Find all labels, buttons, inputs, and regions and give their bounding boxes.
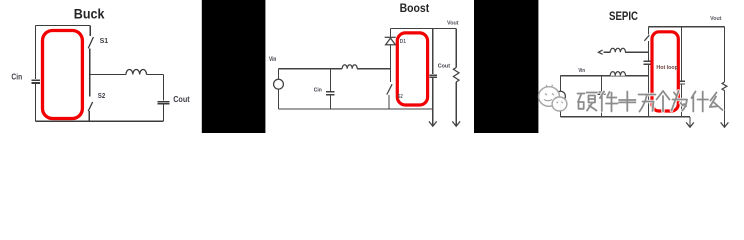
input arrow (to Vin rail) — [598, 50, 602, 54]
switch S1 lever — [88, 37, 93, 48]
wire inductor to output node — [147, 74, 164, 76]
inductor L buck (3 humps) — [126, 70, 147, 75]
wire Cout ground drop — [432, 109, 434, 126]
wire L1 to switch node — [625, 51, 649, 53]
wire bottom (return bus) — [36, 120, 164, 122]
svg-text:S2: S2 — [98, 91, 105, 100]
source Vin circle — [274, 79, 284, 89]
switch S1 top stub — [89, 25, 91, 36]
wire diode cathode stub — [390, 29, 392, 38]
wire S2 bottom stub — [88, 111, 90, 121]
wire switch node to inductor — [90, 74, 126, 76]
capacitor Cdc plates (coupling) — [643, 60, 650, 62]
capacitor Cin plates — [32, 79, 41, 81]
ground arrow (Cout branch) — [429, 121, 437, 126]
diode D1 cathode bar — [385, 36, 396, 38]
inductor L1 (3 humps) — [610, 48, 625, 52]
wire Cout branch lower (sepic) — [681, 84, 683, 116]
wire switch-node vertical — [89, 48, 91, 96]
wire Cin branch lower (sepic) — [601, 95, 603, 117]
wire Cout branch lower — [163, 105, 165, 122]
svg-text:Vin: Vin — [269, 56, 276, 63]
switch S2 lever — [88, 102, 92, 111]
wire bottom bus (sepic) — [561, 116, 691, 118]
watermark text halo — [578, 91, 723, 112]
capacitor Cout plates — [157, 101, 169, 103]
wire load branch lower — [455, 82, 457, 126]
inductor L boost (3 humps) — [342, 65, 357, 69]
inductor L2 (3 humps) — [610, 72, 625, 76]
svg-text:S2: S2 — [398, 94, 403, 100]
watermark text strokes — [578, 91, 723, 112]
wire Cout branch upper — [163, 75, 165, 101]
wire Vin source upper stub — [560, 76, 562, 92]
wire coupling cap to bottom — [648, 65, 650, 117]
wire left (Cin branch upper) — [35, 25, 37, 79]
wire Cin branch upper — [330, 69, 332, 91]
svg-text:Vin: Vin — [578, 68, 585, 74]
svg-text:Cin: Cin — [11, 72, 22, 81]
wire load branch lower (sepic) — [724, 91, 726, 127]
svg-text:Cout: Cout — [438, 63, 450, 69]
svg-text:Cin: Cin — [314, 88, 323, 94]
wire Cin branch lower — [330, 96, 332, 109]
wire bottom bus — [279, 108, 433, 110]
wire S2 bottom stub (boost) — [388, 95, 390, 109]
capacitor Cin plates (sepic) — [598, 91, 606, 93]
wire left (Cin branch lower) — [35, 84, 37, 122]
capacitor Cout plates (sepic) — [678, 80, 685, 82]
svg-text:SEPIC: SEPIC — [609, 10, 638, 23]
watermark logo bubbles — [539, 87, 567, 111]
wire top (input bus) — [36, 24, 91, 26]
ground arrow (load branch) — [452, 121, 460, 126]
svg-text:D1: D1 — [400, 39, 406, 45]
wire output top bus — [391, 28, 457, 30]
wire load branch upper (sepic) — [724, 27, 726, 82]
ground arrow (load branch sepic) — [721, 122, 729, 127]
switch S2 lever (boost) — [387, 84, 392, 94]
svg-text:Hot loop: Hot loop — [656, 65, 678, 71]
wire switch to coupling cap — [648, 41, 650, 61]
wire Cin branch upper (sepic) — [601, 76, 603, 92]
svg-text:Vout: Vout — [710, 16, 721, 22]
wire Vin rail — [561, 75, 649, 77]
wire load branch upper — [455, 29, 457, 68]
wire ground drop (bottom bus) — [689, 117, 691, 127]
logo eyes — [545, 94, 547, 96]
wire Cout branch lower (boost) — [432, 78, 434, 109]
svg-text:Buck: Buck — [74, 6, 105, 22]
wire Vin source lower stub — [560, 101, 562, 117]
wire input bus — [279, 68, 343, 70]
wire Cout branch upper (sepic) — [681, 27, 683, 81]
svg-text:Vout: Vout — [447, 21, 459, 27]
wire inductor to switch node — [357, 68, 390, 70]
separator bar 2 — [474, 0, 538, 133]
separator bar 1 — [202, 0, 266, 133]
wire Vin top stub — [278, 69, 280, 80]
svg-text:Boost: Boost — [400, 3, 430, 15]
wire box top bus — [649, 26, 725, 28]
hot-loop highlight (Boost) — [397, 33, 427, 105]
switch lever (sepic) — [644, 35, 649, 41]
wire diode anode stub — [390, 45, 392, 69]
page background — [0, 0, 744, 133]
ground arrow (bottom bus) — [686, 122, 694, 127]
hot-loop highlight (SEPIC) — [652, 32, 678, 111]
switch top stub (sepic) — [648, 27, 650, 35]
capacitor Cout plates (boost) — [430, 74, 438, 76]
wire arrow to inductor L1 — [604, 51, 611, 53]
wire Vin bottom stub — [278, 89, 280, 109]
svg-text:S1: S1 — [100, 36, 109, 45]
source Vin circle (sepic) — [556, 91, 566, 101]
diode D1 triangle — [386, 38, 396, 45]
capacitor Cin plates (boost) — [326, 91, 335, 93]
wire S2 upper stub (boost) — [390, 69, 392, 82]
resistor R load (zigzag) — [453, 68, 459, 83]
resistor R load (sepic zigzag) — [722, 82, 727, 91]
svg-text:Cout: Cout — [173, 95, 190, 104]
wire Cout branch upper (boost) — [432, 29, 434, 74]
hot-loop highlight (Buck) — [43, 31, 83, 119]
